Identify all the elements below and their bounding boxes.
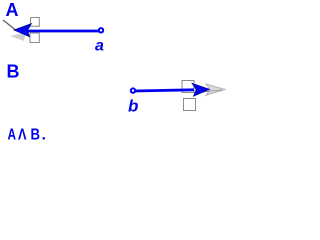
svg-text:.: . — [42, 127, 46, 144]
svg-text:Λ: Λ — [18, 127, 27, 144]
point dot b (blue ring, white centre) — [130, 87, 136, 93]
svg-text:B: B — [31, 127, 41, 144]
ghost gray shaft stub (right arrow) — [196, 90, 222, 93]
vector a shaft (pointing left) — [28, 30, 100, 33]
ghost gray arrowhead below left arrow — [10, 33, 26, 42]
selection handle bottom (right arrow) — [184, 99, 196, 111]
svg-text:b: b — [128, 97, 138, 116]
vector b arrowhead — [192, 83, 210, 96]
selection handle bottom (left arrow) — [30, 33, 39, 43]
svg-text:a: a — [95, 38, 104, 55]
vector a arrowhead — [14, 24, 32, 37]
ghost gray arrowhead (right arrow) — [206, 84, 225, 95]
selection handle top (left arrow) — [31, 18, 40, 27]
svg-text:A: A — [6, 0, 19, 20]
selection handle top (right arrow) — [182, 81, 194, 93]
svg-text:B: B — [7, 62, 20, 82]
point dot a (blue ring, white centre) — [98, 27, 104, 33]
ghost drag line (gray) toward left arrowhead — [3, 20, 15, 30]
svg-text:A: A — [8, 127, 17, 144]
vector b shaft (pointing right) — [134, 90, 194, 91]
